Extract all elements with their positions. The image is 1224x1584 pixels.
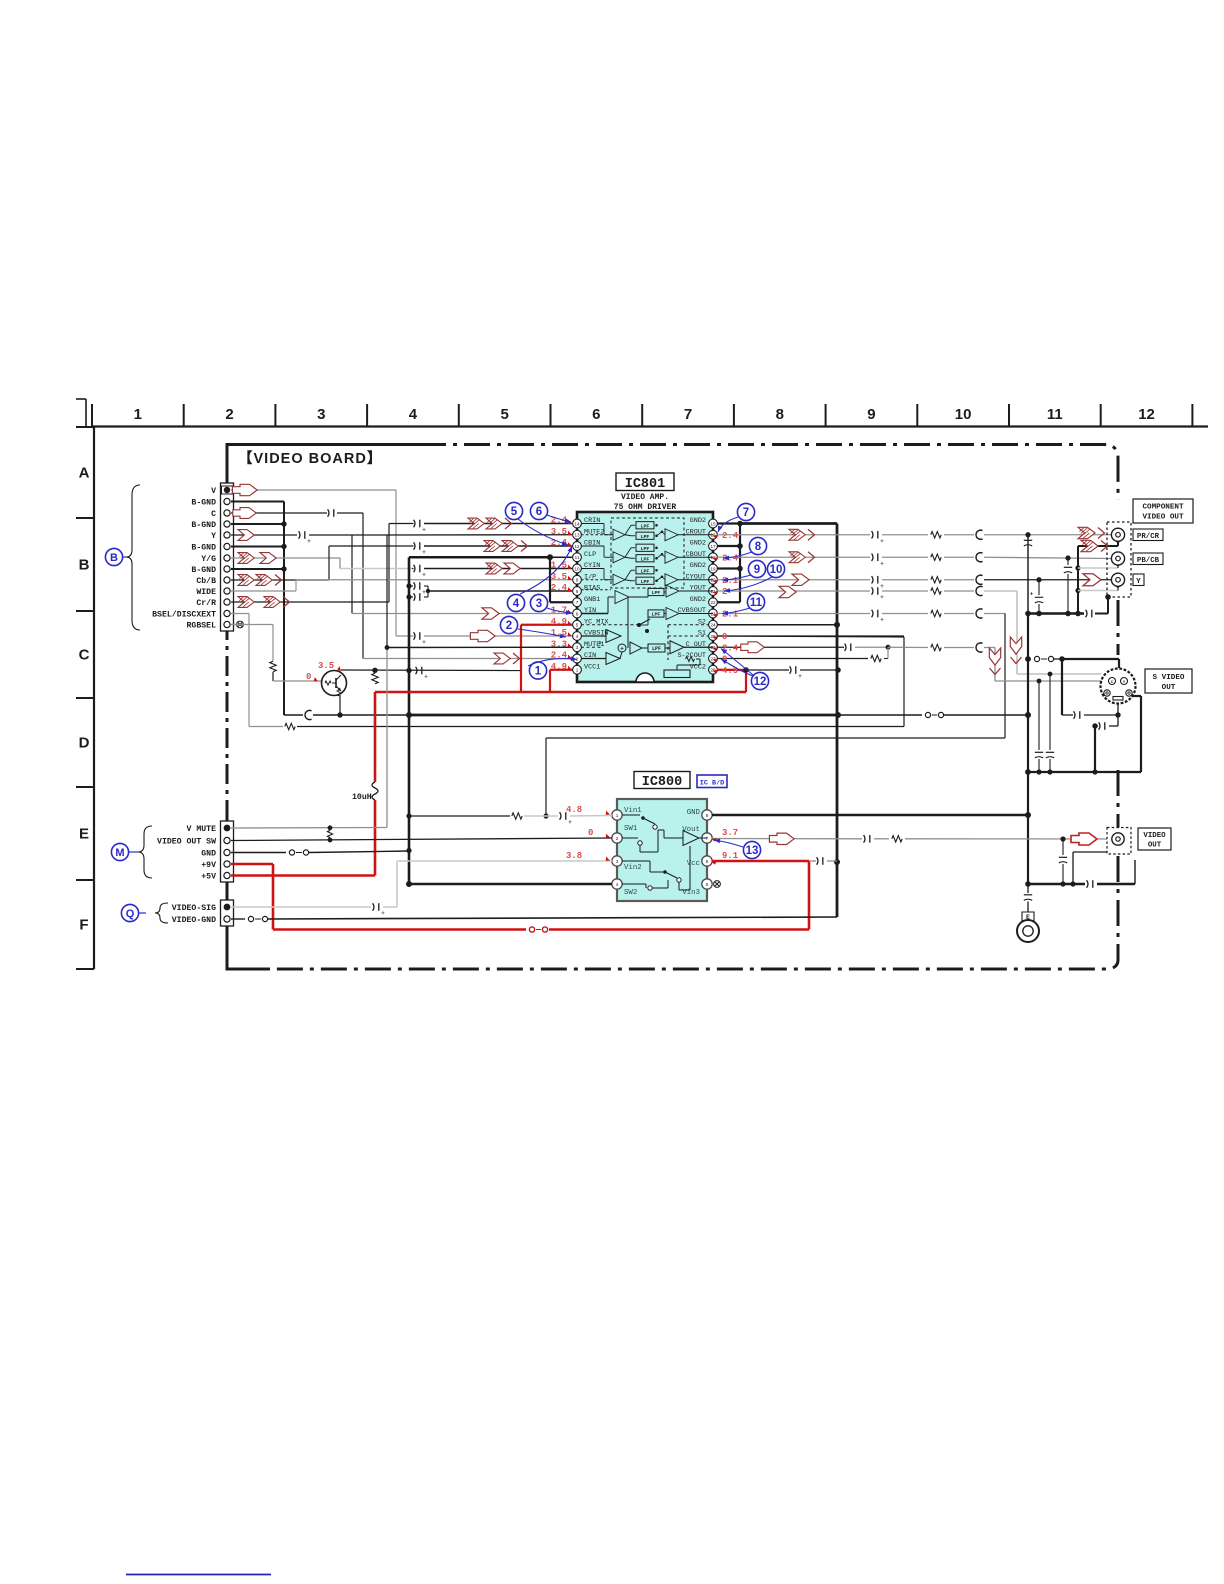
svg-text:+: + <box>424 675 428 681</box>
svg-text:OUT: OUT <box>1162 684 1176 692</box>
svg-text:8: 8 <box>576 589 579 594</box>
svg-text:6: 6 <box>592 406 600 423</box>
resistor collector pull-up to +5V <box>372 673 378 683</box>
IC801 internal chroma adder and amp <box>618 641 713 654</box>
svg-text:SW2: SW2 <box>624 889 637 897</box>
svg-text:9: 9 <box>576 578 579 583</box>
svg-text:6: 6 <box>706 859 709 864</box>
wire VIDEO OUT jack ground <box>1073 843 1120 884</box>
svg-text:+: + <box>307 539 311 545</box>
svg-text:8: 8 <box>755 541 762 553</box>
IC801 left pins 14..1 <box>573 517 609 674</box>
svg-text:2: 2 <box>722 587 727 597</box>
svg-text:Cb/B: Cb/B <box>196 576 216 586</box>
svg-text:2: 2 <box>506 620 512 632</box>
IC801 internal bias network <box>664 657 700 678</box>
value 3.5 at IC801 pin 9 <box>551 572 573 582</box>
label COMPONENT VIDEO OUT <box>1133 499 1193 523</box>
value 1.7 at IC801 pin 6 <box>551 606 573 616</box>
wire net Cb/B to CBIN <box>231 542 572 580</box>
svg-text:3.3: 3.3 <box>551 639 567 649</box>
IC801 internal filter block dashed outline <box>611 518 684 588</box>
node Q group brace <box>155 903 168 923</box>
svg-text:8: 8 <box>776 406 784 423</box>
svg-text:4: 4 <box>409 406 418 423</box>
svg-text:1: 1 <box>535 665 542 677</box>
svg-text:3.8: 3.8 <box>566 851 582 861</box>
value 2.4 at IC801 pin 8 <box>551 583 573 593</box>
svg-text:1: 1 <box>576 668 579 673</box>
svg-text:C: C <box>211 510 216 519</box>
svg-text:0: 0 <box>306 672 311 682</box>
wire transistor collector 3.5V line <box>341 667 520 681</box>
svg-text:4: 4 <box>576 634 579 639</box>
value 4.9 at IC801 pin 28 <box>713 666 739 676</box>
svg-text:4.9: 4.9 <box>551 662 567 672</box>
value 2.1 at IC801 pin 20 <box>713 576 739 586</box>
svg-text:5: 5 <box>706 882 709 887</box>
svg-text:+: + <box>620 647 624 653</box>
svg-text:2: 2 <box>616 836 619 841</box>
IC B/D reference label <box>697 775 727 788</box>
value 4.9 at IC801 pin 1 <box>551 662 573 672</box>
svg-text:IC800: IC800 <box>642 775 683 790</box>
ground lug E801 <box>1017 884 1039 942</box>
node M group brace <box>138 826 152 878</box>
svg-text:10uH: 10uH <box>352 793 372 802</box>
wire net B-GND chain <box>231 502 287 716</box>
svg-text:LPF: LPF <box>641 556 650 562</box>
capacitor Y line S-video <box>1046 674 1054 772</box>
value 2.4 at IC801 pin 18 <box>713 553 739 563</box>
svg-text:SW1: SW1 <box>624 825 638 833</box>
svg-text:VCC2: VCC2 <box>690 663 706 671</box>
svg-text:VIDEO AMP.: VIDEO AMP. <box>621 493 669 502</box>
IC801 internal switch node <box>581 597 650 648</box>
callout 10 at YOUT <box>724 560 785 593</box>
wire CROUT to PR/CR jack <box>717 530 1112 545</box>
capacitor Y line to ground <box>1030 580 1043 614</box>
svg-text:Vcc: Vcc <box>687 860 700 868</box>
wire GND2 pins chain to ground bus <box>717 521 837 603</box>
svg-text:LPF: LPF <box>641 534 650 540</box>
svg-text:22: 22 <box>710 600 716 605</box>
IC801 right pins 15..28 <box>677 517 717 674</box>
jack ground return rail <box>1075 537 1120 613</box>
svg-text:B-GND: B-GND <box>191 566 216 575</box>
value 0 at IC801 pin 27 <box>713 655 728 665</box>
node B group brace <box>126 485 140 630</box>
wire CVBSOUT to IC800 Vin1 loop <box>543 609 1005 819</box>
IC801 internal Y channel amp <box>581 585 713 614</box>
svg-text:VIDEO OUT: VIDEO OUT <box>1142 514 1183 522</box>
wire IC800 Vout to VIDEO OUT jack <box>712 835 1112 843</box>
transistor Q801 chroma mute <box>322 671 347 697</box>
svg-text:5: 5 <box>511 506 518 518</box>
inductor L801 10uH on +5V <box>372 782 378 800</box>
svg-text:GND2: GND2 <box>690 540 706 548</box>
svg-text:【VIDEO BOARD】: 【VIDEO BOARD】 <box>238 450 382 467</box>
svg-text:10: 10 <box>955 406 972 423</box>
wire net C to CIN <box>231 509 572 658</box>
svg-text:+: + <box>422 528 426 534</box>
value 3.5 at transistor collector <box>318 661 343 673</box>
svg-text:B: B <box>110 552 118 564</box>
svg-text:GND2: GND2 <box>690 562 706 570</box>
svg-text:RGBSEL: RGBSEL <box>187 622 217 631</box>
value 9.1 at Vcc <box>712 851 739 865</box>
callout 2 at CVBSIN <box>500 616 566 639</box>
wire C OUT to S-video C pin <box>717 643 1102 684</box>
capacitor PB line to ground <box>1064 558 1072 614</box>
svg-text:+: + <box>880 561 884 567</box>
IC800 right pins 8..5 <box>682 809 712 897</box>
connector CN-Q video input header <box>221 900 234 926</box>
wire net V MUTE to MUTE1 MUTE2 <box>231 535 572 830</box>
svg-text:+: + <box>880 584 884 590</box>
callout 6 at CRIN <box>530 502 571 524</box>
arrows on CBOUT <box>789 552 815 563</box>
capacitor S-video ground 2 <box>1092 722 1118 772</box>
svg-text:11: 11 <box>750 597 763 609</box>
svg-text:VIDEO-GND: VIDEO-GND <box>172 916 216 925</box>
IC801 internal S1 S2 dashed select lines <box>668 625 709 660</box>
svg-text:13: 13 <box>574 533 580 538</box>
svg-text:1.5: 1.5 <box>551 561 567 571</box>
svg-text:12: 12 <box>574 544 580 549</box>
svg-text:2: 2 <box>576 656 579 661</box>
wire CYOUT to Y jack <box>717 575 1112 590</box>
connector CN-B pin name labels <box>152 487 216 631</box>
value 2.4 at IC801 pin 26 <box>713 643 739 653</box>
svg-text:GNB1: GNB1 <box>584 596 600 604</box>
label PR/CR <box>1133 529 1163 541</box>
svg-text:GND: GND <box>201 850 216 859</box>
svg-text:19: 19 <box>710 566 716 571</box>
svg-text:LPF: LPF <box>641 546 650 552</box>
svg-text:+: + <box>422 640 426 646</box>
svg-text:WIDE: WIDE <box>196 588 216 597</box>
svg-text:B-GND: B-GND <box>191 544 216 553</box>
svg-text:+5V: +5V <box>201 873 216 882</box>
wire net Y/G to CYIN <box>231 558 572 579</box>
svg-text:4: 4 <box>616 882 619 887</box>
arrow on net C at CIN <box>494 653 520 664</box>
value 3.8 at Vin2 <box>566 851 611 862</box>
grid ruler top <box>76 399 1208 427</box>
arrow at VIDEO OUT jack <box>1071 833 1097 845</box>
svg-text:Cr/R: Cr/R <box>196 598 216 608</box>
svg-text:3.5: 3.5 <box>318 661 334 671</box>
svg-text:0: 0 <box>588 828 593 838</box>
value 2.4 at IC801 pin 12 <box>551 538 573 548</box>
op-amp IC800 video switch <box>617 799 707 901</box>
wire net Vin1 input RC <box>409 812 612 826</box>
component ground bus <box>1025 594 1111 617</box>
jack PR/CR <box>1111 528 1124 541</box>
svg-text:7: 7 <box>743 507 749 519</box>
IC800 left pins 1..4 <box>612 807 643 897</box>
svg-text:3: 3 <box>317 406 325 423</box>
svg-text:5: 5 <box>500 406 508 423</box>
connector CN-M pin name labels <box>157 825 216 882</box>
svg-text:3.7: 3.7 <box>722 828 738 838</box>
ground bus bottom right <box>1028 860 1135 888</box>
svg-text:2.4: 2.4 <box>551 583 568 593</box>
value 2.1 at IC801 pin 23 <box>713 610 739 620</box>
wire net WIDE <box>231 590 296 592</box>
IC801 label box <box>614 473 677 512</box>
label Y <box>1133 574 1144 586</box>
wire net VIDEO-GND <box>231 916 837 921</box>
op-amp IC801 video amp 75 ohm driver <box>577 512 713 682</box>
value 1.5 at IC801 pin 4 <box>551 628 573 638</box>
svg-text:4: 4 <box>513 598 520 610</box>
value 2.4 at IC801 pin 16 <box>713 531 739 541</box>
jack Y <box>1111 573 1124 586</box>
wire net V to CVBSIN <box>231 490 572 646</box>
svg-text:9: 9 <box>867 406 875 423</box>
svg-text:S VIDEO: S VIDEO <box>1153 674 1185 682</box>
svg-text:GND2: GND2 <box>690 596 706 604</box>
connector CN-M power header <box>221 821 234 882</box>
svg-text:LPF: LPF <box>641 568 650 574</box>
decoupling capacitors at BIAS pin <box>409 582 572 601</box>
svg-text:+: + <box>798 674 802 680</box>
vertical distribution bus x409 <box>406 554 572 884</box>
svg-text:Y: Y <box>1136 578 1141 586</box>
IC800 pin5 Vin3 no-connect symbol <box>714 881 721 888</box>
value 2 at IC801 pin 21 <box>713 587 728 597</box>
wire S2 to ground bus <box>717 624 837 626</box>
svg-text:11: 11 <box>575 555 580 560</box>
jack VIDEO OUT <box>1107 828 1131 855</box>
arrows on net Cr/R <box>238 597 290 608</box>
connector CN-B video input header <box>221 483 234 631</box>
callout 4 at CYIN <box>507 545 574 611</box>
svg-text:LPF: LPF <box>652 590 661 596</box>
svg-text:VIDEO: VIDEO <box>1143 832 1166 840</box>
arrow on net V <box>232 484 257 495</box>
grid ruler left <box>76 427 94 970</box>
wire +5V red from connector <box>231 800 375 876</box>
capacitor Vcc bypass <box>809 857 837 865</box>
svg-text:+: + <box>880 539 884 545</box>
resistor S-2COUT to C OUT <box>717 647 888 661</box>
arrow on net Y <box>238 530 254 541</box>
arrows on net Cb/B <box>238 575 282 586</box>
svg-text:9: 9 <box>754 564 760 576</box>
svg-text:3: 3 <box>616 859 619 864</box>
svg-text:+: + <box>422 550 426 556</box>
value 3.7 at Vout <box>712 828 739 842</box>
callout 13 at IC800 Vout <box>714 838 761 859</box>
svg-text:2: 2 <box>225 406 233 423</box>
svg-text:IC B/D: IC B/D <box>700 780 724 788</box>
svg-text:D: D <box>79 735 90 752</box>
value 3.5 at IC801 pin 13 <box>551 527 573 537</box>
svg-text:PR/CR: PR/CR <box>1137 533 1160 541</box>
value 2.4 at IC801 pin 2 <box>551 651 573 661</box>
svg-text:Y: Y <box>211 532 216 541</box>
wire net SW2 ground <box>406 881 612 887</box>
arrow on C OUT <box>741 642 764 653</box>
svg-text:0: 0 <box>722 632 727 642</box>
IC800 internal switches and amp <box>622 815 707 890</box>
wire net I/P to pin9 <box>296 579 572 581</box>
svg-text:9.1: 9.1 <box>722 851 739 861</box>
svg-text:6: 6 <box>536 506 542 518</box>
arrow on CYOUT <box>792 574 809 585</box>
ground bus vertical x837 <box>834 524 840 918</box>
arrows on net Y/G at CYIN <box>486 563 520 574</box>
svg-text:+: + <box>422 590 426 596</box>
svg-text:3: 3 <box>576 645 579 650</box>
svg-text:C: C <box>79 647 90 664</box>
svg-text:PB/CB: PB/CB <box>1137 557 1160 565</box>
svg-text:BIAS: BIAS <box>584 585 600 593</box>
wire IC800 GND pin to ground bus <box>712 812 1031 818</box>
IC800 label box <box>634 772 690 791</box>
red arrows down to S-video <box>989 637 1021 675</box>
svg-text:4.9: 4.9 <box>551 617 567 627</box>
svg-text:11: 11 <box>1047 406 1063 423</box>
svg-text:E: E <box>79 826 89 843</box>
svg-text:IC801: IC801 <box>625 477 666 492</box>
value 0 at SW1 <box>588 828 611 839</box>
arrow at Y jack <box>1083 574 1101 586</box>
node M label <box>111 843 138 860</box>
svg-text:LPF: LPF <box>652 646 661 652</box>
ground bus vertical right <box>1025 535 1031 887</box>
svg-text:B-GND: B-GND <box>191 521 216 530</box>
svg-text:24: 24 <box>710 623 716 628</box>
wire +9V red from connector to IC800 Vcc <box>231 861 809 932</box>
wire transistor emitter to ground bus <box>337 695 342 718</box>
svg-text:8: 8 <box>706 813 709 818</box>
svg-text:Vin2: Vin2 <box>624 864 642 872</box>
footer rule <box>126 1574 271 1576</box>
svg-text:1: 1 <box>134 406 142 423</box>
wire net VIDEO OUT SW to IC800 SW1 <box>231 838 612 843</box>
jack PB/CB <box>1111 552 1124 565</box>
svg-text:5: 5 <box>576 623 579 628</box>
svg-text:GND: GND <box>687 809 701 817</box>
wire VCC2 bypass to ground bus <box>743 666 841 680</box>
wire net RGBSEL to mute transistor base <box>231 625 321 682</box>
value 4.8 at Vin1 <box>566 805 611 816</box>
wire net S jumper to S-video shell <box>1025 656 1119 715</box>
node B label <box>105 548 126 565</box>
callout 7 at CROUT <box>716 503 755 532</box>
node Q label <box>121 904 146 921</box>
arrows on net Cr/R at CRIN <box>468 518 512 529</box>
svg-text:Vout: Vout <box>682 826 700 834</box>
callout 3 at YIN <box>530 594 572 615</box>
svg-text:Vin1: Vin1 <box>624 807 642 815</box>
connector CN-B RGBSEL no-connect symbol <box>231 621 243 628</box>
svg-text:OUT: OUT <box>1148 842 1162 850</box>
arrow on YOUT <box>779 586 796 597</box>
value 1.5 at IC801 pin 10 <box>551 561 573 571</box>
video board boundary (dash-dot) <box>227 445 1118 970</box>
svg-text:GND2: GND2 <box>690 517 706 525</box>
arrows on net Cb/B at CBIN <box>484 541 528 552</box>
svg-text:1: 1 <box>616 813 619 818</box>
svg-text:VCC1: VCC1 <box>584 663 600 671</box>
callout 12 at C OUT S-2COUT <box>719 647 768 690</box>
svg-text:10: 10 <box>770 564 783 576</box>
svg-text:LPF: LPF <box>641 579 650 585</box>
svg-text:LPF: LPF <box>652 612 661 618</box>
value 0 at transistor base <box>306 672 319 683</box>
wire net VIDEO-SIG to Vin2 <box>231 861 612 917</box>
svg-text:3.5: 3.5 <box>551 527 567 537</box>
value 0 at IC801 pin 25 <box>713 632 728 642</box>
IC801 internal channel 1 amp and LPF <box>581 522 713 541</box>
label PB/CB <box>1133 553 1163 565</box>
IC801 internal CVBSIN amp <box>581 630 621 648</box>
wire S1 S-2COUT interconnect <box>717 635 904 637</box>
IC801 internal mute and bias dashed stubs <box>581 535 611 590</box>
IC801 internal channel 3 amp and LPF <box>581 567 713 586</box>
svg-text:B: B <box>79 557 90 574</box>
value 2.4 at IC801 pin 14 <box>551 516 573 526</box>
capacitor PR line to ground <box>1024 535 1032 614</box>
arrow on net V at CVBSIN <box>470 630 495 641</box>
svg-text:V MUTE: V MUTE <box>187 825 217 834</box>
svg-text:+: + <box>880 618 884 624</box>
arrow on net C <box>233 508 256 519</box>
callout 1 at VCC1 <box>528 656 577 679</box>
svg-text:7: 7 <box>684 406 692 423</box>
svg-text:4.8: 4.8 <box>566 805 582 815</box>
callout 9 at CYOUT <box>722 560 766 582</box>
wire net BSEL/DISCXEXT to S1 <box>231 614 904 730</box>
svg-text:+: + <box>422 573 426 579</box>
label S VIDEO OUT <box>1145 669 1192 693</box>
svg-text:CLP: CLP <box>584 551 596 559</box>
wire CBOUT to PB/CB jack <box>717 553 1112 568</box>
svg-text:+: + <box>381 911 385 917</box>
svg-text:10: 10 <box>574 566 580 571</box>
svg-text:Q: Q <box>126 908 135 920</box>
svg-text:12: 12 <box>754 676 767 688</box>
resistor V MUTE to SW line <box>327 830 332 837</box>
IC801 internal CVBS amp <box>639 608 713 626</box>
wire net GND-M with jumper <box>231 850 409 855</box>
svg-text:F: F <box>79 917 88 934</box>
arrow on net Y at YIN <box>482 608 499 619</box>
svg-text:3: 3 <box>536 598 542 610</box>
svg-text:COMPONENT: COMPONENT <box>1142 504 1183 512</box>
svg-text:15: 15 <box>710 521 716 526</box>
component video out dotted outline <box>1107 522 1131 597</box>
svg-text:7: 7 <box>576 600 579 605</box>
svg-text:B-GND: B-GND <box>191 499 216 508</box>
capacitor at Vout line to ground <box>1059 839 1067 887</box>
svg-text:Y/G: Y/G <box>201 554 216 564</box>
capacitor C line S-video <box>1035 681 1043 772</box>
capacitor S-video ground 1 <box>1062 704 1121 726</box>
svg-text:+9V: +9V <box>201 861 216 870</box>
IC801 internal channel 2 amp and LPF <box>581 544 713 563</box>
svg-text:17: 17 <box>710 544 716 549</box>
svg-text:A: A <box>79 465 90 482</box>
svg-text:M: M <box>115 847 124 859</box>
svg-text:BSEL/DISCXEXT: BSEL/DISCXEXT <box>152 610 216 620</box>
label VIDEO OUT <box>1138 828 1171 850</box>
